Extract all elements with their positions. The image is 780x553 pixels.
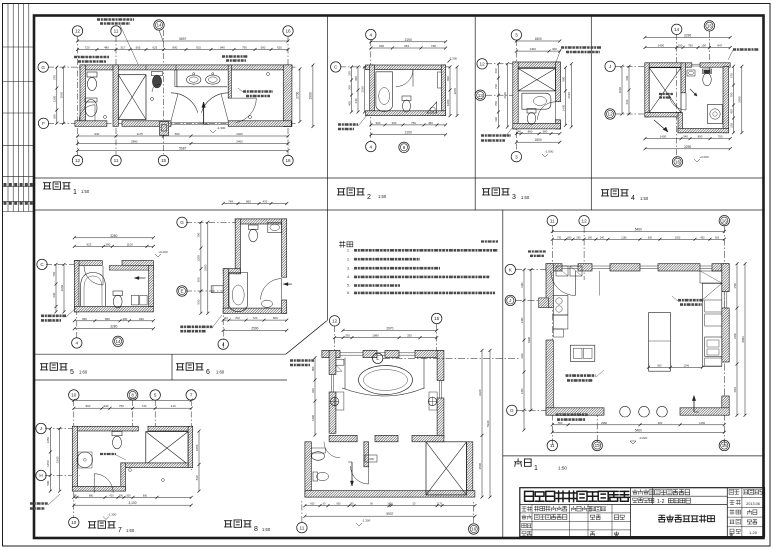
plan5 door arc bbox=[84, 266, 103, 285]
plan5 counter band bbox=[109, 265, 153, 270]
plan8 basin left bbox=[330, 397, 338, 405]
svg-text:432: 432 bbox=[263, 200, 268, 204]
plan1 door arc right room bbox=[236, 98, 257, 123]
svg-text:-1.300: -1.300 bbox=[362, 519, 371, 523]
svg-text:1175: 1175 bbox=[137, 132, 144, 136]
svg-text:16: 16 bbox=[722, 443, 728, 448]
svg-text:720: 720 bbox=[85, 46, 90, 50]
plan1 axis lines bbox=[77, 36, 79, 156]
title right header bbox=[729, 490, 739, 495]
label WSJ8 (bathroom 8 1:60) bbox=[224, 520, 251, 527]
kitchen top dim 5460 bbox=[552, 231, 724, 233]
title block grid bbox=[520, 488, 765, 537]
svg-text:750: 750 bbox=[411, 121, 416, 125]
plan3 axis bubble 13 left bbox=[475, 90, 485, 100]
kitchen axis bubble K left bbox=[505, 264, 515, 274]
svg-text:3: 3 bbox=[515, 154, 518, 159]
plan4 right wall bbox=[723, 66, 729, 133]
svg-text:380: 380 bbox=[588, 236, 593, 239]
svg-text:280: 280 bbox=[105, 242, 110, 246]
svg-text:1800: 1800 bbox=[535, 138, 542, 142]
plan3 axis bubble 3 top bbox=[511, 30, 521, 40]
svg-text:4.: 4. bbox=[347, 275, 350, 279]
svg-text:2580: 2580 bbox=[738, 96, 742, 103]
plan4 interior wall bbox=[681, 63, 685, 93]
svg-text:7: 7 bbox=[190, 393, 193, 398]
plan1 axis bubble 16 top bbox=[283, 26, 293, 36]
plan7 right wall bbox=[188, 426, 193, 467]
plan3 right dim chain bbox=[565, 67, 567, 125]
plan1 door arc left room bbox=[79, 105, 95, 121]
plan8 basin right bbox=[428, 397, 436, 405]
title college name bbox=[525, 491, 630, 502]
label WSJ2 (bathroom 2 1:50) bbox=[337, 188, 364, 195]
plan7 axis bubble H left bbox=[36, 470, 46, 480]
svg-text:G: G bbox=[180, 220, 184, 225]
svg-text:5.: 5. bbox=[347, 284, 350, 288]
kitchen left wall protrusion bbox=[539, 298, 549, 308]
svg-text:16: 16 bbox=[285, 158, 291, 163]
svg-text:750: 750 bbox=[119, 404, 124, 408]
plan8 lower bottom wall bbox=[305, 491, 475, 497]
svg-text:300: 300 bbox=[375, 121, 380, 125]
plan7 toilet bbox=[112, 432, 122, 436]
plan2 axis bubble 8 bottom bbox=[399, 142, 409, 152]
kitchen right dim chain bbox=[736, 264, 738, 416]
plan4 toilet bbox=[703, 69, 712, 74]
plan7 bottom dim 3100 bbox=[74, 504, 191, 506]
plan4 annotation right bbox=[733, 48, 759, 51]
svg-text:12: 12 bbox=[582, 218, 588, 223]
plan7 door arc bbox=[94, 474, 113, 493]
plan4 shaft label bbox=[659, 93, 673, 95]
svg-text:880: 880 bbox=[89, 494, 94, 497]
svg-text:2880: 2880 bbox=[131, 140, 138, 144]
plan1 double door arcs bbox=[171, 93, 198, 113]
plan3 toilet bbox=[527, 109, 536, 114]
kitchen axis bubble L lower-left bbox=[373, 353, 383, 363]
svg-text:1400: 1400 bbox=[529, 47, 536, 51]
svg-text:1960: 1960 bbox=[56, 456, 60, 463]
plan4 axis bubble J left bbox=[605, 61, 615, 71]
plan5 axis bubble 14 bottom bbox=[113, 336, 123, 346]
svg-text:10: 10 bbox=[71, 520, 77, 525]
svg-text:4: 4 bbox=[370, 144, 373, 149]
svg-text:738: 738 bbox=[431, 44, 436, 48]
svg-text:1:60: 1:60 bbox=[126, 528, 135, 533]
kitchen axis bubble 11 bottom bbox=[547, 440, 557, 450]
svg-text:600: 600 bbox=[657, 364, 662, 367]
kitchen axis bubble 13 bottom bbox=[592, 440, 602, 450]
svg-text:2190: 2190 bbox=[405, 38, 412, 42]
kitchen bottom dim 5460 bbox=[552, 431, 724, 433]
svg-text:2230: 2230 bbox=[734, 333, 737, 339]
svg-text:G: G bbox=[41, 65, 45, 70]
plan6 annotation bottom-left bbox=[180, 325, 212, 328]
svg-text:2900: 2900 bbox=[309, 92, 313, 99]
plan6 bottom dim 2590 bbox=[223, 329, 287, 331]
plan1 top dim chain bbox=[78, 49, 289, 51]
svg-text:H: H bbox=[39, 473, 42, 478]
svg-text:590: 590 bbox=[261, 46, 266, 50]
plan5 bottom dim chain bbox=[74, 320, 153, 322]
plan1 bottom sill lines bbox=[171, 122, 228, 124]
svg-text:14: 14 bbox=[156, 23, 162, 28]
svg-text:11: 11 bbox=[300, 525, 305, 530]
plan7 bottom dim chain bbox=[74, 496, 191, 498]
svg-text:800: 800 bbox=[172, 46, 177, 50]
plan1 right wall bbox=[283, 65, 292, 127]
kitchen bottom dim chain bbox=[552, 424, 724, 426]
svg-text:840: 840 bbox=[220, 46, 225, 50]
title right bottom bbox=[730, 533, 733, 536]
plan1 top wall jambs bbox=[145, 65, 147, 70]
svg-text:1400: 1400 bbox=[660, 135, 667, 139]
svg-text:L: L bbox=[376, 356, 379, 361]
svg-text:1:60: 1:60 bbox=[262, 527, 271, 532]
svg-text:1400: 1400 bbox=[311, 415, 315, 421]
svg-text:400: 400 bbox=[552, 47, 557, 51]
divider diagonal to notes cell bbox=[286, 321, 327, 354]
plan1 right dim 2700 bbox=[299, 69, 301, 122]
svg-text:1930: 1930 bbox=[59, 92, 63, 99]
svg-text:2.: 2. bbox=[347, 257, 350, 261]
plan5 right wall bbox=[149, 265, 154, 306]
svg-text:300: 300 bbox=[197, 277, 201, 282]
svg-text:1050: 1050 bbox=[675, 236, 681, 239]
svg-text:780: 780 bbox=[729, 92, 733, 97]
svg-text:410: 410 bbox=[109, 494, 114, 497]
plan8 lower door arc a bbox=[351, 466, 369, 484]
svg-text:2013.06: 2013.06 bbox=[746, 502, 760, 506]
svg-text:480: 480 bbox=[104, 46, 109, 50]
plan4 bottom wall lower bbox=[678, 129, 729, 133]
title right row number bbox=[730, 529, 740, 534]
svg-text:960: 960 bbox=[85, 404, 90, 408]
svg-text:1: 1 bbox=[534, 465, 538, 472]
plan1 bottom dim 4800 bbox=[78, 143, 289, 145]
svg-text:600: 600 bbox=[310, 503, 315, 506]
plan1 axis bubble 14 top bbox=[154, 20, 164, 30]
svg-text:1450: 1450 bbox=[521, 388, 524, 394]
svg-text:2190: 2190 bbox=[405, 131, 412, 135]
svg-text:2590: 2590 bbox=[204, 264, 208, 271]
svg-text:620: 620 bbox=[277, 46, 282, 50]
plan6 bottom dim chain bbox=[223, 319, 287, 321]
svg-text:15: 15 bbox=[161, 158, 167, 163]
svg-text:1080: 1080 bbox=[446, 99, 450, 106]
svg-text:847: 847 bbox=[717, 44, 722, 48]
svg-text:7: 7 bbox=[118, 527, 122, 534]
plan3 shaft x-box bbox=[518, 69, 555, 91]
plan4 bottom dim chain bbox=[645, 138, 730, 140]
plan7 mid h-wall bbox=[121, 463, 188, 468]
label WSJ1 (bathroom 1 1:50) bbox=[43, 182, 70, 189]
svg-text:1490: 1490 bbox=[521, 317, 524, 323]
svg-text:90: 90 bbox=[224, 316, 228, 320]
plan4 top wall bbox=[645, 63, 692, 67]
title cell dept bbox=[522, 506, 532, 511]
plan4 axis bubble 15 top bbox=[704, 21, 714, 31]
plan1 down arrow bbox=[203, 102, 205, 124]
divider v kitchen cell left bbox=[502, 210, 504, 538]
plan6 top dim chain bbox=[223, 203, 287, 205]
svg-text:5: 5 bbox=[154, 393, 157, 398]
plan1 left outer dim bbox=[63, 67, 65, 123]
svg-text:5687: 5687 bbox=[179, 147, 186, 151]
plan1 top overall dim 5697 bbox=[78, 40, 289, 42]
kitchen annotation a bbox=[678, 299, 704, 302]
plan1 axis bubble F left bbox=[38, 118, 48, 128]
plan7 left wall bbox=[72, 426, 77, 491]
svg-text:+0.000: +0.000 bbox=[158, 250, 168, 254]
plan3 axis lines bbox=[515, 40, 517, 152]
svg-text:450: 450 bbox=[428, 121, 433, 125]
svg-text:5697: 5697 bbox=[179, 37, 186, 41]
plan5 annotation bottom-left bbox=[41, 314, 66, 317]
svg-text:3100: 3100 bbox=[129, 396, 136, 400]
plan2 corner basin bbox=[427, 102, 437, 113]
svg-text:11: 11 bbox=[550, 443, 555, 448]
plan8 top dim 2970 bbox=[343, 329, 437, 331]
plan1 axis bubble 12 top bbox=[72, 26, 82, 36]
svg-text:2: 2 bbox=[367, 194, 371, 201]
kitchen annotation c bbox=[556, 413, 588, 416]
label WSJ4 (bathroom 4 1:50) bbox=[601, 189, 628, 196]
divider v between plan3 and plan4 bbox=[590, 16, 592, 211]
plan6 axis bubble 4 bottom bbox=[218, 339, 228, 349]
title project name row bbox=[633, 498, 654, 503]
plan1 bottom dim chain bbox=[78, 135, 289, 137]
plan8 axis lines bbox=[334, 326, 336, 352]
svg-text:5: 5 bbox=[70, 369, 74, 376]
plan6 toilet bbox=[249, 225, 259, 230]
svg-text:1-2: 1-2 bbox=[657, 499, 665, 505]
svg-text:+0.000: +0.000 bbox=[699, 155, 709, 159]
title cell name bbox=[522, 532, 532, 537]
plan2 axis bubble C left bbox=[331, 62, 341, 72]
title course name row bbox=[633, 490, 654, 495]
svg-text:1200: 1200 bbox=[521, 353, 524, 359]
svg-text:925: 925 bbox=[86, 242, 91, 246]
label WSJ7 (bathroom 7 1:60) bbox=[88, 521, 115, 528]
plan1 axis bubble 11 top bbox=[111, 26, 121, 36]
svg-text:1960: 1960 bbox=[60, 284, 64, 291]
plan8 tub platform curve bbox=[342, 388, 424, 396]
plan3 top wall bbox=[513, 62, 560, 67]
svg-text:2970: 2970 bbox=[386, 326, 393, 330]
svg-text:730: 730 bbox=[557, 236, 562, 239]
label band row1 top line bbox=[34, 177, 764, 179]
svg-text:900: 900 bbox=[311, 366, 315, 371]
svg-text:1100: 1100 bbox=[127, 242, 134, 246]
plan4 arrows bbox=[654, 120, 668, 132]
svg-text:1400: 1400 bbox=[658, 44, 665, 48]
svg-text:690: 690 bbox=[354, 76, 358, 81]
svg-text:1980: 1980 bbox=[372, 334, 379, 338]
plan2 top wall bbox=[366, 65, 446, 70]
svg-text:-1.300: -1.300 bbox=[108, 513, 117, 517]
svg-text:750: 750 bbox=[718, 135, 723, 139]
plan1 toilet left room 2 bbox=[85, 100, 97, 117]
svg-text:410: 410 bbox=[171, 404, 176, 408]
svg-text:517: 517 bbox=[121, 46, 126, 50]
svg-text:190: 190 bbox=[119, 494, 124, 497]
label WSJ3 (bathroom 3 1:50) bbox=[482, 188, 509, 195]
label WSJ5 (bathroom 5 1:60) bbox=[40, 363, 67, 370]
plan3 annotation bottom-left bbox=[481, 134, 511, 137]
plan1 bottom wall pier bbox=[160, 122, 169, 136]
svg-text:2400: 2400 bbox=[236, 132, 243, 136]
svg-text:6: 6 bbox=[206, 369, 210, 376]
svg-text:16: 16 bbox=[471, 527, 477, 532]
svg-text:12: 12 bbox=[75, 29, 81, 34]
svg-text:330: 330 bbox=[345, 334, 350, 338]
label band row2 bottom line bbox=[34, 379, 287, 381]
svg-text:2400: 2400 bbox=[236, 140, 243, 144]
plan8 left wall bbox=[329, 350, 336, 374]
plan1 annotation mid-top bbox=[222, 55, 248, 58]
plan4 axis lines bbox=[676, 34, 678, 158]
plan6 top wall bbox=[235, 219, 287, 224]
plan5 shower arch bbox=[81, 273, 106, 307]
svg-text:1780: 1780 bbox=[734, 283, 737, 289]
svg-text:3420: 3420 bbox=[478, 389, 482, 396]
svg-text:12: 12 bbox=[75, 158, 81, 163]
plan7 axis bubble 7 top bbox=[186, 390, 196, 400]
plan1 axis bubble G left bbox=[38, 62, 48, 72]
svg-text:150: 150 bbox=[677, 44, 682, 48]
svg-text:600: 600 bbox=[494, 68, 498, 73]
plan1 left wall bbox=[80, 65, 86, 124]
svg-text:240: 240 bbox=[104, 404, 109, 408]
plan3 axis bubble 12 left bbox=[477, 59, 487, 69]
plan6 bathtub bbox=[229, 273, 248, 312]
kitchen down arrow bbox=[693, 396, 695, 412]
plan4 left wall bbox=[645, 63, 649, 117]
plan5 axis bubble C left bbox=[37, 259, 47, 269]
svg-text:360: 360 bbox=[567, 236, 572, 239]
plan6 bottom wall bbox=[223, 308, 287, 313]
plan2 top dim chain bbox=[371, 47, 446, 49]
svg-text:748: 748 bbox=[228, 200, 233, 204]
plan8 axis bubble 16 bottom bbox=[469, 524, 479, 534]
svg-text:6.: 6. bbox=[347, 291, 350, 295]
plan2 left wall bbox=[370, 65, 375, 115]
svg-text:2980: 2980 bbox=[601, 421, 607, 425]
plan4 axis bubble 14 top bbox=[672, 24, 682, 34]
title cell major bbox=[522, 515, 532, 520]
plan7 mid v-wall bbox=[121, 463, 126, 491]
plan8 axis bubble 11 bottom bbox=[297, 523, 307, 533]
svg-text:800: 800 bbox=[143, 494, 148, 497]
svg-text:10: 10 bbox=[71, 393, 77, 398]
svg-text:4: 4 bbox=[370, 32, 373, 37]
svg-text:1240: 1240 bbox=[684, 364, 690, 367]
kitchen left dim chains bbox=[523, 270, 525, 430]
plan4 right dim outer bbox=[741, 66, 743, 133]
svg-text:8: 8 bbox=[254, 526, 258, 533]
plan2 axis bubble 4 top bbox=[366, 29, 376, 39]
svg-text:12: 12 bbox=[480, 62, 486, 67]
plan1 shaft x-box bbox=[118, 75, 146, 120]
plan8 annotation left bbox=[290, 359, 314, 362]
svg-text:280: 280 bbox=[576, 236, 581, 239]
svg-text:915: 915 bbox=[196, 46, 201, 50]
kitchen bottom wall bbox=[546, 408, 604, 415]
svg-text:16: 16 bbox=[285, 29, 291, 34]
plan8 lower right wall bbox=[467, 442, 473, 491]
svg-text:3: 3 bbox=[512, 194, 516, 201]
plan5 top dim chain bbox=[74, 245, 153, 247]
svg-text:5920: 5920 bbox=[486, 420, 490, 427]
plan6 drain ellipse bbox=[262, 300, 273, 307]
svg-text:660: 660 bbox=[175, 132, 180, 136]
svg-text:460: 460 bbox=[347, 101, 351, 106]
plan4 right dim chain bbox=[733, 66, 735, 133]
svg-text:2000: 2000 bbox=[734, 386, 737, 392]
svg-text:14: 14 bbox=[674, 27, 680, 32]
kitchen top dim chain bbox=[552, 238, 724, 240]
svg-text:J: J bbox=[609, 64, 611, 69]
svg-text:580: 580 bbox=[543, 130, 548, 134]
divider v between plan1 and plan2 bbox=[326, 16, 328, 321]
plan6 sink bbox=[268, 222, 282, 232]
plan7 axis bubble 10 bottom bbox=[69, 517, 79, 527]
plan8 right wall window bbox=[438, 380, 440, 398]
plan2 shelf right bbox=[438, 72, 442, 88]
kitchen annotation b bbox=[566, 374, 596, 377]
svg-text:260: 260 bbox=[347, 85, 351, 90]
kitchen island bbox=[649, 313, 671, 372]
plan2 right dim chain bbox=[449, 67, 451, 116]
plan3 left wall bbox=[513, 62, 518, 129]
svg-text:150: 150 bbox=[347, 71, 351, 76]
svg-text:1200: 1200 bbox=[197, 255, 201, 262]
kitchen top fixtures bbox=[556, 266, 568, 276]
plan3 vanity bbox=[522, 93, 551, 109]
svg-text:600: 600 bbox=[625, 75, 629, 80]
kitchen axis bubble 16 top bbox=[719, 216, 729, 226]
svg-text:4: 4 bbox=[222, 342, 225, 347]
plan4 lower ext wall bbox=[678, 113, 683, 133]
title right row scale bbox=[730, 520, 741, 525]
plan6 step wall bbox=[223, 269, 240, 274]
plan7 annotation bottom-left bbox=[30, 502, 48, 505]
svg-text:300: 300 bbox=[122, 317, 127, 321]
plan7 shower bbox=[77, 452, 93, 468]
kitchen sink right bbox=[705, 337, 722, 357]
svg-text:860: 860 bbox=[528, 130, 533, 134]
svg-text:240: 240 bbox=[600, 236, 605, 239]
general notes text block bbox=[339, 241, 353, 247]
plan4 axis bubble 12 left bbox=[605, 109, 615, 119]
svg-text:750: 750 bbox=[688, 44, 693, 48]
plan1 annotation left bbox=[74, 56, 109, 58]
plan5 top wall bbox=[74, 261, 102, 266]
svg-text:660: 660 bbox=[625, 99, 629, 104]
divider v between plan2 and plan3 bbox=[474, 16, 476, 211]
svg-text:11: 11 bbox=[114, 158, 119, 163]
svg-text:3.: 3. bbox=[347, 266, 350, 270]
svg-text:1050: 1050 bbox=[195, 444, 199, 451]
svg-text:2500: 2500 bbox=[478, 463, 482, 470]
plan3 top dim chain bbox=[516, 50, 559, 52]
plan2 door arc bbox=[396, 70, 413, 87]
plan6 left wall upper bbox=[235, 219, 240, 274]
kitchen axis bubble 12 top bbox=[579, 216, 589, 226]
kitchen axis bubble J left bbox=[505, 295, 515, 305]
